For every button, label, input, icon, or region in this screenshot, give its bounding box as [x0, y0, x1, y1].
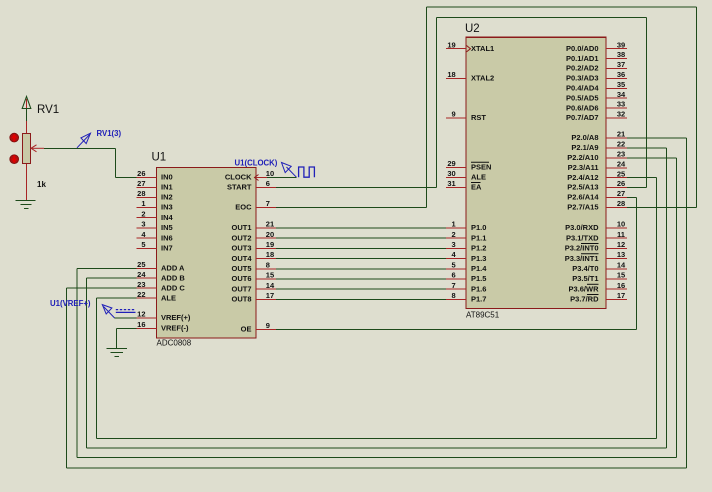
RV1 interactive up control — [10, 133, 19, 142]
svg-text:P2.1/A9: P2.1/A9 — [571, 143, 598, 152]
svg-text:P2.3/A11: P2.3/A11 — [568, 163, 599, 172]
svg-text:9: 9 — [452, 110, 456, 119]
dc generator U1(VREF+) — [50, 299, 136, 318]
svg-text:39: 39 — [617, 40, 625, 49]
svg-text:7: 7 — [266, 199, 270, 208]
svg-text:25: 25 — [137, 260, 145, 269]
U1 pin names — [161, 173, 252, 334]
power terminal (RV1 top) — [26, 99, 28, 133]
svg-text:3: 3 — [452, 240, 456, 249]
svg-text:P3.3/INT1: P3.3/INT1 — [565, 254, 599, 263]
svg-text:14: 14 — [617, 260, 626, 269]
svg-text:33: 33 — [617, 100, 625, 109]
svg-text:21: 21 — [617, 130, 625, 139]
wire U1 OUT7 to U2 P1.6 — [276, 288, 446, 290]
svg-text:16: 16 — [617, 281, 625, 290]
svg-text:25: 25 — [617, 169, 625, 178]
svg-text:P0.7/AD7: P0.7/AD7 — [566, 113, 599, 122]
svg-text:EA: EA — [471, 183, 482, 192]
svg-text:RST: RST — [471, 113, 486, 122]
U2 right pin stubs — [606, 49, 627, 300]
svg-text:P1.3: P1.3 — [471, 254, 486, 263]
label ADC0808 — [157, 338, 192, 347]
svg-text:6: 6 — [452, 271, 456, 280]
svg-text:28: 28 — [137, 189, 145, 198]
svg-text:P0.0/AD0: P0.0/AD0 — [566, 44, 599, 53]
svg-text:22: 22 — [617, 140, 625, 149]
svg-text:15: 15 — [617, 271, 625, 280]
svg-text:P1.0: P1.0 — [471, 223, 486, 232]
svg-text:6: 6 — [266, 179, 270, 188]
svg-text:17: 17 — [266, 291, 274, 300]
svg-text:OUT3: OUT3 — [231, 244, 251, 253]
svg-text:28: 28 — [617, 199, 625, 208]
svg-text:26: 26 — [137, 169, 145, 178]
svg-text:P0.2/AD2: P0.2/AD2 — [566, 64, 599, 73]
svg-text:IN5: IN5 — [161, 223, 173, 232]
svg-text:P0.4/AD4: P0.4/AD4 — [566, 84, 599, 93]
svg-text:P3.7/RD: P3.7/RD — [570, 295, 599, 304]
svg-text:8: 8 — [452, 291, 456, 300]
svg-text:P0.3/AD3: P0.3/AD3 — [566, 74, 599, 83]
svg-text:IN3: IN3 — [161, 203, 173, 212]
U1 left pin stubs — [137, 178, 157, 329]
svg-text:P0.6/AD6: P0.6/AD6 — [566, 103, 599, 112]
svg-text:19: 19 — [266, 240, 274, 249]
svg-text:11: 11 — [617, 230, 625, 239]
svg-text:4: 4 — [452, 250, 457, 259]
U1 CLOCK pin input mark — [255, 175, 259, 181]
wire U1 OUT4 to U2 P1.3 — [276, 258, 446, 260]
wire U1 OE to U2 P2.6/A14 — [276, 197, 636, 329]
svg-text:21: 21 — [266, 220, 274, 229]
svg-text:24: 24 — [137, 270, 146, 279]
svg-text:ALE: ALE — [471, 173, 486, 182]
svg-text:32: 32 — [617, 110, 625, 119]
svg-text:P0.5/AD5: P0.5/AD5 — [566, 93, 599, 102]
svg-text:RV1: RV1 — [37, 104, 59, 116]
svg-text:9: 9 — [266, 321, 270, 330]
U2 pin name overlines — [471, 162, 599, 294]
ground (RV1) — [16, 201, 36, 209]
label U2 — [465, 23, 480, 35]
svg-text:AT89C51: AT89C51 — [466, 311, 500, 320]
wire U1 OUT6 to U2 P1.5 — [276, 278, 446, 280]
svg-text:13: 13 — [617, 250, 625, 259]
svg-text:34: 34 — [617, 90, 626, 99]
svg-text:17: 17 — [617, 291, 625, 300]
svg-text:P1.1: P1.1 — [471, 233, 486, 242]
U2 pin numbers — [447, 40, 626, 300]
svg-text:XTAL1: XTAL1 — [471, 44, 494, 53]
svg-text:29: 29 — [447, 159, 455, 168]
svg-text:ALE: ALE — [161, 293, 176, 302]
ADC U1 ADC0808 body — [157, 168, 257, 339]
svg-text:P3.5/T1: P3.5/T1 — [572, 274, 598, 283]
svg-text:P3.2/INT0: P3.2/INT0 — [565, 244, 599, 253]
svg-text:P1.5: P1.5 — [471, 274, 486, 283]
svg-text:EOC: EOC — [235, 203, 252, 212]
svg-text:18: 18 — [266, 250, 274, 259]
svg-text:P1.7: P1.7 — [471, 295, 486, 304]
svg-text:P2.7/A15: P2.7/A15 — [567, 203, 598, 212]
svg-text:23: 23 — [137, 280, 145, 289]
svg-text:5: 5 — [452, 260, 456, 269]
svg-text:31: 31 — [447, 179, 455, 188]
svg-text:20: 20 — [266, 230, 274, 239]
svg-text:1k: 1k — [37, 180, 46, 189]
svg-text:19: 19 — [447, 40, 455, 49]
svg-text:35: 35 — [617, 80, 625, 89]
wire U1 ADD B to U2 P2.1/A9 — [86, 148, 666, 448]
svg-text:P3.6/WR: P3.6/WR — [568, 284, 599, 293]
svg-text:P3.4/T0: P3.4/T0 — [572, 264, 598, 273]
svg-text:ADD C: ADD C — [161, 283, 185, 292]
svg-text:14: 14 — [266, 281, 275, 290]
svg-text:U1(VREF+): U1(VREF+) — [50, 299, 91, 308]
wire U1 OUT8 to U2 P1.7 — [276, 298, 446, 300]
svg-text:P1.6: P1.6 — [471, 284, 486, 293]
svg-text:PSEN: PSEN — [471, 163, 491, 172]
voltage probe RV1(3) — [77, 129, 121, 148]
svg-text:CLOCK: CLOCK — [225, 173, 252, 182]
U1 right pin stubs — [256, 178, 276, 330]
svg-text:OE: OE — [241, 325, 252, 334]
wire U1 OUT5 to U2 P1.4 — [276, 268, 446, 270]
svg-text:P1.4: P1.4 — [471, 264, 487, 273]
svg-text:P0.1/AD1: P0.1/AD1 — [566, 54, 599, 63]
ground (U1 VREF-) — [107, 349, 128, 357]
svg-text:IN0: IN0 — [161, 173, 173, 182]
wire U1 CLOCK stub — [267, 177, 297, 179]
svg-text:U1(CLOCK): U1(CLOCK) — [235, 159, 278, 168]
svg-text:22: 22 — [137, 290, 145, 299]
wire U1 OUT1 to U2 P1.0 — [276, 227, 446, 229]
svg-text:U2: U2 — [465, 23, 480, 35]
svg-text:OUT8: OUT8 — [231, 295, 251, 304]
wire U1 ADD C to U2 P2.0/A8 — [66, 138, 686, 468]
svg-text:VREF(+): VREF(+) — [161, 313, 191, 322]
svg-text:U1: U1 — [152, 152, 167, 164]
svg-text:ADD B: ADD B — [161, 273, 185, 282]
wire U1 VREF+ — [115, 317, 137, 319]
svg-text:P3.0/RXD: P3.0/RXD — [565, 223, 599, 232]
svg-text:XTAL2: XTAL2 — [471, 74, 494, 83]
wire U1 OUT2 to U2 P1.1 — [276, 237, 446, 239]
svg-text:16: 16 — [137, 320, 145, 329]
svg-text:OUT7: OUT7 — [231, 284, 251, 293]
svg-text:10: 10 — [266, 169, 274, 178]
svg-text:27: 27 — [617, 189, 625, 198]
svg-text:12: 12 — [617, 240, 625, 249]
MCU U2 AT89C51 body — [466, 37, 606, 308]
svg-text:2: 2 — [141, 209, 145, 218]
svg-text:START: START — [227, 183, 252, 192]
U1 pin numbers — [137, 169, 275, 330]
svg-text:5: 5 — [141, 240, 145, 249]
svg-text:IN2: IN2 — [161, 193, 173, 202]
wire U1 EOC to U2 P2.7/A15 — [276, 7, 696, 208]
svg-text:36: 36 — [617, 70, 625, 79]
svg-text:P2.6/A14: P2.6/A14 — [567, 193, 599, 202]
svg-text:10: 10 — [617, 220, 625, 229]
svg-text:37: 37 — [617, 60, 625, 69]
label RV1 — [37, 104, 59, 116]
wire U1 START to U2 P2.5/A13 — [276, 17, 647, 187]
svg-text:23: 23 — [617, 150, 625, 159]
label U1 — [152, 152, 167, 164]
svg-text:IN6: IN6 — [161, 233, 173, 242]
U2 pin names — [471, 44, 599, 304]
svg-text:OUT5: OUT5 — [231, 264, 251, 273]
svg-text:RV1(3): RV1(3) — [97, 129, 122, 138]
svg-text:IN1: IN1 — [161, 183, 173, 192]
wire RV1 wiper to U1 IN0 — [44, 148, 137, 177]
svg-text:P2.4/A12: P2.4/A12 — [567, 173, 598, 182]
svg-text:3: 3 — [141, 220, 145, 229]
RV1 interactive down control — [10, 155, 19, 164]
svg-text:4: 4 — [141, 230, 146, 239]
svg-text:7: 7 — [452, 281, 456, 290]
svg-text:15: 15 — [266, 271, 274, 280]
label RV1 value 1k — [37, 180, 46, 189]
svg-text:ADC0808: ADC0808 — [157, 338, 192, 347]
svg-text:P1.2: P1.2 — [471, 244, 486, 253]
svg-text:1: 1 — [141, 199, 145, 208]
svg-text:IN7: IN7 — [161, 244, 173, 253]
svg-text:26: 26 — [617, 179, 625, 188]
svg-text:ADD A: ADD A — [161, 264, 185, 273]
svg-text:IN4: IN4 — [161, 213, 174, 222]
clock generator U1(CLOCK) — [235, 159, 315, 178]
svg-text:P2.5/A13: P2.5/A13 — [567, 183, 598, 192]
svg-text:24: 24 — [617, 159, 626, 168]
svg-text:2: 2 — [452, 230, 456, 239]
U2 XTAL1 pin input mark — [467, 46, 471, 52]
U2 left pin stubs — [446, 49, 466, 300]
svg-text:P2.2/A10: P2.2/A10 — [567, 153, 598, 162]
svg-text:P3.1/TXD: P3.1/TXD — [566, 233, 599, 242]
potentiometer RV1 — [23, 134, 45, 201]
svg-text:18: 18 — [447, 70, 455, 79]
svg-text:OUT6: OUT6 — [231, 274, 251, 283]
svg-text:38: 38 — [617, 50, 625, 59]
svg-text:OUT2: OUT2 — [231, 233, 251, 242]
svg-text:P2.0/A8: P2.0/A8 — [571, 133, 598, 142]
svg-text:27: 27 — [137, 179, 145, 188]
wire U1 OUT3 to U2 P1.2 — [276, 247, 446, 249]
svg-text:OUT1: OUT1 — [231, 223, 251, 232]
wire U1 ALE to U2 P2.4/A12 — [97, 178, 657, 439]
svg-text:8: 8 — [266, 260, 270, 269]
label AT89C51 — [466, 311, 500, 320]
svg-text:VREF(-): VREF(-) — [161, 324, 189, 333]
wire U1 ADD A to U2 P2.2/A10 — [77, 158, 677, 458]
svg-text:OUT4: OUT4 — [231, 254, 252, 263]
svg-text:12: 12 — [137, 310, 145, 319]
wire U1 VREF- to ground — [116, 328, 136, 348]
svg-text:1: 1 — [452, 220, 456, 229]
svg-text:30: 30 — [447, 169, 455, 178]
